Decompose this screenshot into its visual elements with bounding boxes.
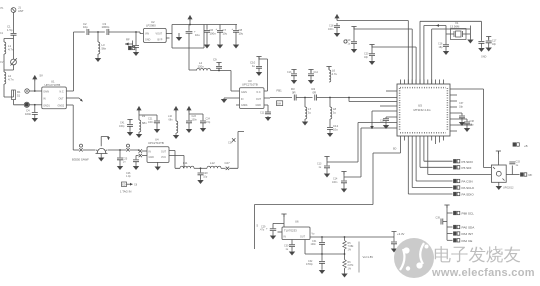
net label ED box	[122, 182, 127, 187]
svg-text:1.5p: 1.5p	[7, 28, 13, 32]
wire C31 lead	[321, 237, 323, 242]
svg-text:L12: L12	[210, 161, 215, 165]
svg-text:C13: C13	[287, 71, 292, 74]
svg-text:P88 SCL: P88 SCL	[462, 212, 475, 216]
wire ED arrow	[127, 183, 133, 185]
wire C25 gnd	[119, 160, 121, 165]
wire C17 gnd	[488, 43, 490, 47]
svg-text:IN: IN	[284, 236, 287, 239]
capacitor C10	[256, 66, 262, 68]
net label SDI	[454, 166, 460, 169]
wire C41 gnd lead	[129, 126, 131, 131]
wire C9 top lead	[218, 63, 220, 66]
svg-text:100n: 100n	[332, 181, 338, 184]
wire bus rf ctrl	[428, 141, 492, 175]
junction C35 tap	[135, 31, 137, 33]
ground	[342, 273, 347, 277]
capacitor C17a	[478, 42, 484, 44]
net label SDO	[454, 160, 460, 163]
wire node left	[4, 39, 14, 43]
svg-text:1u: 1u	[286, 248, 289, 251]
tbar C13	[324, 157, 329, 160]
wire C4 tap down	[34, 105, 36, 112]
svg-text:OUT: OUT	[256, 98, 262, 101]
wire C9 bottom lead	[218, 68, 220, 70]
svg-text:68n: 68n	[142, 121, 147, 125]
connector blob pin3	[25, 103, 29, 107]
junction L8 tap	[329, 97, 331, 99]
svg-text:PA3 INT: PA3 INT	[462, 232, 474, 236]
capacitor C41	[127, 125, 133, 127]
wire C10 net	[259, 57, 268, 66]
svg-text:N.C: N.C	[60, 91, 64, 94]
wire L6t lead	[328, 67, 330, 71]
svg-text:1u: 1u	[308, 111, 312, 115]
svg-text:RF: RF	[529, 173, 533, 177]
capacitor C5 electrolytic	[186, 31, 193, 33]
net arrow RF (varactor mark)	[125, 43, 133, 45]
wire blob to U1 pin3	[29, 104, 41, 106]
wire rail1	[138, 110, 140, 120]
wire U1 vcc right riser	[73, 32, 75, 91]
ground	[257, 71, 262, 75]
wire R6 gnd	[344, 269, 346, 273]
ground	[325, 173, 330, 177]
wire C14 lead	[343, 172, 345, 181]
svg-text:GAIN: GAIN	[241, 91, 247, 94]
capacitor C14	[341, 181, 347, 183]
net label SDIO	[454, 192, 460, 195]
xcap CX3	[139, 149, 142, 152]
wire C40 gnd	[393, 244, 395, 248]
wire bus sdi	[420, 141, 453, 168]
wire U3 out riser	[264, 59, 268, 91]
wire rail3	[188, 110, 190, 120]
svg-text:BM: BM	[277, 103, 281, 106]
wire U3 pin2 left	[224, 97, 240, 99]
svg-text:1u: 1u	[319, 166, 322, 169]
svg-text:IN: IN	[149, 150, 152, 153]
svg-text:B3550 SAWF: B3550 SAWF	[72, 157, 89, 161]
svg-text:PA2 CE: PA2 CE	[462, 239, 473, 243]
wire C6 down	[206, 32, 208, 43]
wire xtal right branch	[466, 26, 470, 39]
resistor R4 (0R)	[315, 95, 317, 101]
wire top rail3	[372, 45, 416, 85]
svg-text:IN: IN	[241, 98, 244, 101]
ground	[155, 128, 160, 132]
svg-text:PA SCLK: PA SCLK	[462, 186, 476, 190]
svg-text:+3.3V: +3.3V	[397, 232, 405, 236]
tbar C13t	[291, 70, 296, 73]
wire sw gnd lead	[498, 182, 500, 185]
svg-text:PA SDIO: PA SDIO	[462, 193, 475, 197]
U5 bottom pin numbers	[400, 132, 446, 134]
wire R5 lead	[344, 237, 346, 241]
net arrow bracket	[107, 137, 110, 140]
wire U2 out to box	[166, 33, 172, 35]
svg-text:LP2980: LP2980	[146, 24, 156, 28]
inductor L3	[98, 42, 100, 54]
capacitor C18	[334, 26, 340, 28]
svg-text:GND: GND	[256, 104, 262, 107]
capacitor C16	[443, 45, 449, 47]
svg-text:C1: C1	[0, 32, 4, 35]
wire U5 right 125 stub	[457, 124, 472, 126]
wire C21 gnd	[156, 123, 158, 128]
capacitor C6	[204, 30, 210, 32]
wire sw top lead	[497, 151, 499, 165]
svg-text:18p: 18p	[459, 105, 464, 108]
wire C4 to gnd	[34, 114, 36, 117]
ground	[384, 124, 389, 128]
wire L2 down	[4, 84, 14, 97]
tbar C14	[341, 172, 346, 175]
wire CX3 to U4	[142, 150, 147, 152]
wire col row2	[447, 226, 453, 228]
junction rail-L3	[97, 31, 99, 33]
svg-text:ANT: ANT	[18, 9, 24, 13]
wire rail1 cap tap	[336, 23, 338, 25]
svg-text:UPG2012: UPG2012	[503, 186, 514, 189]
svg-text:1000p: 1000p	[102, 25, 110, 29]
inductor L2	[4, 72, 6, 84]
tbar C41 top	[127, 120, 132, 123]
wire rail2 gnd	[175, 133, 177, 134]
net label U2 byp	[129, 46, 135, 49]
wire U5 pin 122.5 route down	[327, 123, 390, 163]
ground	[137, 133, 142, 137]
wire C14t lead	[310, 70, 312, 74]
wire C13t lead	[293, 70, 295, 74]
wire C30 gnd	[291, 247, 293, 251]
ground	[292, 79, 297, 83]
decoupling box outline	[172, 25, 204, 49]
svg-text:GND2: GND2	[58, 104, 65, 107]
inductor L8	[330, 107, 332, 119]
decorative watermark text cn	[435, 246, 520, 263]
svg-text:18p: 18p	[439, 46, 444, 49]
svg-text:L9: L9	[142, 114, 146, 118]
svg-text:C14: C14	[314, 71, 319, 74]
wire U5 right 89 to sw	[457, 89, 491, 168]
svg-text:+B: +B	[524, 144, 528, 148]
wire link to R chain	[322, 253, 345, 255]
svg-text:GND: GND	[149, 156, 155, 159]
svg-text:1u: 1u	[348, 42, 351, 45]
ground	[118, 165, 123, 169]
ground	[187, 128, 192, 132]
ground	[96, 57, 101, 61]
capacitor C19	[351, 42, 357, 44]
wire ldo loop top	[255, 204, 374, 206]
resistor R6	[343, 260, 347, 270]
svg-text:PA0 SDA: PA0 SDA	[462, 226, 476, 230]
antenna switch U7 body	[491, 165, 506, 182]
wire C33 lead	[511, 166, 513, 175]
wire U6 gnd a	[291, 240, 293, 245]
tbar sw top	[496, 151, 501, 154]
connector J1 (antenna input)	[11, 8, 16, 13]
svg-text:100n: 100n	[328, 28, 334, 31]
U5 top pin stubs	[401, 80, 444, 85]
wire C17 lead	[488, 37, 490, 41]
wire C28 gnd	[200, 175, 202, 179]
svg-text:P6 SDO: P6 SDO	[462, 160, 474, 164]
wire C17a lead	[480, 39, 482, 42]
svg-text:1u: 1u	[333, 111, 337, 115]
svg-text:1%: 1%	[348, 267, 352, 270]
wire rail1 gnd	[138, 132, 140, 133]
wire R1 down	[14, 100, 25, 105]
tbar rail2	[351, 27, 356, 30]
capacitor C3	[107, 29, 109, 35]
vcc arrow top rail	[335, 15, 339, 20]
wire U5 pin 111 antenna stub	[372, 111, 390, 129]
wire main RF run	[270, 97, 390, 99]
wire CX4 left leg	[136, 156, 139, 160]
svg-text:120n: 120n	[198, 65, 205, 69]
svg-text:10u: 10u	[333, 128, 338, 132]
svg-text:FB1: FB1	[277, 89, 283, 93]
op-amp U4 body	[147, 147, 169, 163]
svg-text:100n: 100n	[210, 32, 217, 36]
wire CX1 to SAW	[83, 149, 96, 151]
junction C9 row	[218, 70, 220, 72]
wire +3V3 cap lead	[393, 237, 395, 241]
wire C38 gnd	[466, 124, 468, 127]
svg-text:C9: C9	[213, 58, 217, 62]
wire C35 tap	[135, 32, 137, 45]
wire rail to caps right	[204, 24, 237, 26]
ferrite bead BM box	[277, 101, 283, 106]
ground	[177, 36, 182, 40]
svg-text:18p: 18p	[364, 56, 369, 59]
tbar L6t	[326, 67, 331, 70]
tbar ldo vcc	[281, 214, 286, 217]
wire C6 lead	[206, 25, 208, 30]
xcap CX4	[139, 154, 142, 157]
wire xtal left branch	[446, 26, 451, 45]
capacitor C21	[154, 121, 160, 123]
svg-text:OUT: OUT	[59, 98, 65, 101]
svg-text:100n: 100n	[148, 121, 154, 124]
ground	[335, 32, 340, 36]
net tbar +3V3	[392, 232, 397, 238]
svg-text:C8: C8	[134, 183, 138, 186]
net label row2	[454, 225, 460, 228]
wire U1 vcc left riser	[34, 78, 36, 92]
junction link 322	[321, 253, 323, 255]
U7 center circle	[496, 171, 501, 176]
xcap CX1	[79, 148, 82, 151]
wire rail1 to C21	[139, 115, 157, 120]
capacitor C31	[319, 243, 325, 245]
wire C20 gnd	[371, 56, 373, 60]
tbar rail3	[369, 45, 374, 48]
wire C25 tap	[119, 150, 121, 157]
wire U5 right 119 cap	[457, 119, 467, 121]
svg-text:0R: 0R	[292, 91, 296, 95]
regulator U6 body	[282, 227, 310, 240]
junction U1 pin1 riser	[34, 90, 36, 92]
wire bus csn	[416, 141, 452, 182]
wire L12 to C27	[221, 167, 226, 169]
wire col row3	[447, 233, 453, 235]
net arrow ED	[130, 183, 133, 186]
capacitor C9	[216, 66, 222, 68]
svg-text:5: 5	[257, 224, 259, 228]
net label SCLK	[454, 186, 460, 189]
capacitor C1	[11, 33, 17, 35]
svg-text:68n: 68n	[169, 118, 174, 121]
wire C26 gnd	[135, 162, 137, 165]
inductor L11	[180, 166, 194, 168]
wire C14 gnd	[343, 183, 345, 188]
svg-text:10u: 10u	[223, 32, 228, 36]
svg-text:1u: 1u	[516, 164, 519, 167]
tbar C17 top	[486, 37, 491, 40]
wire SAW top bracket	[101, 137, 108, 147]
inductor L4	[197, 68, 211, 70]
capacitor C33	[509, 162, 515, 164]
svg-text:1u: 1u	[252, 64, 256, 68]
wire C19 gnd	[353, 44, 355, 48]
svg-text:UPC2710TB: UPC2710TB	[148, 141, 164, 145]
svg-text:U6: U6	[295, 220, 299, 224]
tbar C14t	[308, 70, 313, 73]
svg-text:RF: RF	[126, 38, 130, 42]
svg-text:C27: C27	[225, 161, 231, 165]
junction link R	[344, 253, 346, 255]
ground	[128, 131, 133, 135]
wire U1 pin6 right	[66, 104, 73, 106]
ground	[328, 132, 333, 136]
net label RF out	[521, 173, 527, 176]
net label row1	[454, 211, 460, 214]
wire col row4	[447, 239, 453, 241]
ground	[468, 39, 473, 43]
svg-text:Vo: Vo	[312, 232, 315, 235]
ground	[174, 134, 179, 138]
ground	[460, 121, 465, 125]
SAW filter F1 body	[96, 148, 108, 153]
wire U1 out down to SAW row	[72, 105, 74, 150]
wire bus sdo	[424, 141, 453, 162]
svg-text:.47u: .47u	[260, 229, 265, 232]
ground	[320, 269, 325, 273]
resistor R5	[343, 241, 347, 251]
svg-text:OUT: OUT	[300, 236, 306, 239]
wire C17a gnd	[480, 43, 482, 47]
wire U5 pin stub 91	[386, 90, 390, 92]
wire C14t down	[310, 76, 312, 79]
svg-text:1.0p: 1.0p	[126, 175, 131, 178]
wire C7 lead	[219, 25, 221, 30]
svg-text:GND1: GND1	[241, 104, 248, 107]
wire C12 down	[329, 129, 331, 132]
svg-text:GND: GND	[145, 38, 151, 41]
U5 right pin numbers	[446, 88, 448, 131]
svg-text:GND1: GND1	[43, 104, 50, 107]
xcap C27	[226, 167, 229, 170]
svg-text:GND: GND	[481, 56, 487, 59]
svg-text:GAIN: GAIN	[43, 91, 49, 94]
wire C16 gnd	[445, 47, 447, 50]
U5 left pin numbers	[399, 88, 401, 131]
resistor R3 (0R)	[294, 95, 296, 101]
wire C23 gnd	[188, 123, 190, 128]
svg-text:10u: 10u	[195, 33, 200, 37]
ground	[342, 188, 347, 192]
wire C24 gnd	[202, 123, 204, 127]
svg-text:100p: 100p	[119, 125, 125, 128]
resistor R1	[12, 90, 16, 100]
vcc arrow U1 left	[33, 76, 37, 81]
wire C31 to link	[321, 244, 323, 254]
wire C39 link	[443, 221, 447, 223]
svg-text:Vo=1.8V: Vo=1.8V	[363, 255, 374, 259]
ground	[155, 166, 160, 170]
wire ldo cap branch	[273, 223, 284, 228]
wire C13 gnd	[326, 168, 328, 173]
net arrow osc	[436, 24, 439, 27]
wire ldo vcc down	[283, 214, 285, 227]
wire xout riser	[432, 29, 471, 84]
wire C10 down	[258, 68, 260, 71]
tbar C10 top	[256, 57, 261, 60]
svg-text:4.7u: 4.7u	[332, 72, 338, 76]
coupling cap CX2	[127, 144, 130, 147]
wire xtal rail	[420, 21, 481, 84]
svg-text:CV: CV	[0, 61, 4, 64]
wire C18 gnd	[336, 28, 338, 32]
wire U6 gnd b	[305, 240, 322, 255]
wire C13 lead	[326, 157, 328, 166]
svg-text:100n: 100n	[25, 112, 32, 116]
capacitor C32	[319, 262, 325, 264]
ground	[303, 121, 308, 125]
svg-text:C11: C11	[260, 112, 265, 115]
capacitor C25	[117, 158, 123, 160]
capacitor C38	[464, 122, 470, 124]
wire U3 out to main	[264, 97, 270, 99]
wire U4 out1	[169, 151, 180, 169]
tbar col top	[444, 205, 449, 208]
ground	[465, 127, 470, 131]
wire CX2 to CX3	[130, 150, 139, 151]
svg-text:10p: 10p	[83, 25, 88, 29]
wire top rail	[74, 32, 144, 34]
wire L4 to C9	[211, 70, 232, 72]
op-amp U1 body	[42, 87, 67, 109]
wire top rail2	[354, 27, 412, 85]
svg-text:BYP: BYP	[158, 38, 163, 41]
wire U5 pin 101.5 to main	[349, 98, 390, 102]
ground	[370, 60, 375, 64]
U5 left pin stubs	[390, 91, 397, 128]
svg-text:UPC2710TB: UPC2710TB	[45, 83, 61, 87]
svg-text:51: 51	[17, 94, 21, 98]
junction out R5	[344, 236, 346, 238]
vcc arrow rail3	[187, 107, 191, 112]
wire ldo loop left	[254, 205, 256, 250]
wire L3 to ground	[97, 54, 99, 57]
ground	[444, 50, 449, 54]
svg-text:4.7n: 4.7n	[8, 48, 14, 52]
wire bus pin1 to LDO net	[373, 141, 401, 205]
svg-text:4700p: 4700p	[306, 263, 313, 266]
